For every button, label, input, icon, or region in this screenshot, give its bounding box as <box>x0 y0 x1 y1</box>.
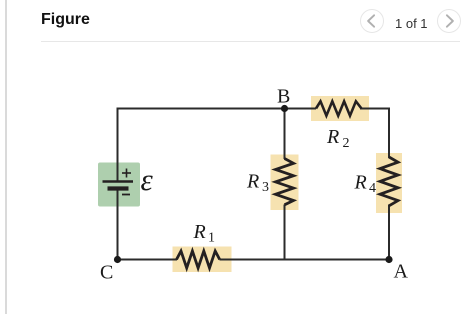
node A junction dot <box>385 256 392 263</box>
battery EMF source: long positive plate <box>103 180 134 183</box>
wire: bottom left (C to R1) <box>118 259 178 261</box>
battery highlight box <box>98 163 140 207</box>
wire: bottom right (R1 to A) <box>220 259 391 261</box>
svg-text:3: 3 <box>262 180 269 195</box>
svg-text:R: R <box>193 221 206 243</box>
resistor R4 highlight box <box>376 153 402 213</box>
svg-text:4: 4 <box>369 181 376 196</box>
resistor R3 zigzag <box>276 159 294 205</box>
svg-text:B: B <box>277 86 290 108</box>
node B junction dot <box>281 105 288 112</box>
header separator rule <box>41 41 460 42</box>
prev chevron <box>360 9 384 33</box>
next chevron <box>437 9 461 33</box>
svg-text:C: C <box>100 262 113 284</box>
battery EMF source: short negative plate <box>108 186 129 190</box>
wire: top right (R2 to right corner down to R4) <box>360 109 389 159</box>
next button circle <box>437 9 461 33</box>
prev button circle <box>360 9 384 33</box>
svg-text:1: 1 <box>208 231 215 246</box>
battery plus sign <box>122 169 131 178</box>
resistor R2 zigzag <box>316 101 362 115</box>
node C junction dot <box>114 256 121 263</box>
resistor R1 highlight box <box>173 247 232 273</box>
svg-text:R: R <box>246 171 259 193</box>
wire: R3 branch bottom (R3 to bottom wire) <box>284 205 286 261</box>
battery minus sign <box>122 194 130 196</box>
svg-text:R: R <box>326 126 339 148</box>
resistor R2 highlight box <box>311 96 369 121</box>
wire: R3 branch top (B down to R3) <box>284 109 286 160</box>
resistor R1 zigzag <box>177 251 220 268</box>
svg-text:R: R <box>354 172 367 194</box>
svg-text:ε: ε <box>141 162 154 197</box>
svg-text:2: 2 <box>343 136 350 151</box>
wire: left lower (battery to C) <box>117 189 119 260</box>
page count label <box>395 16 428 31</box>
wire: top left (B to top-left corner) <box>118 109 317 182</box>
svg-text:A: A <box>394 261 409 283</box>
header title <box>41 11 90 29</box>
resistor R4 zigzag <box>380 157 398 206</box>
left panel border <box>5 0 7 314</box>
wire: right lower (R4 to A) <box>388 205 390 260</box>
resistor R3 highlight box <box>271 155 299 211</box>
